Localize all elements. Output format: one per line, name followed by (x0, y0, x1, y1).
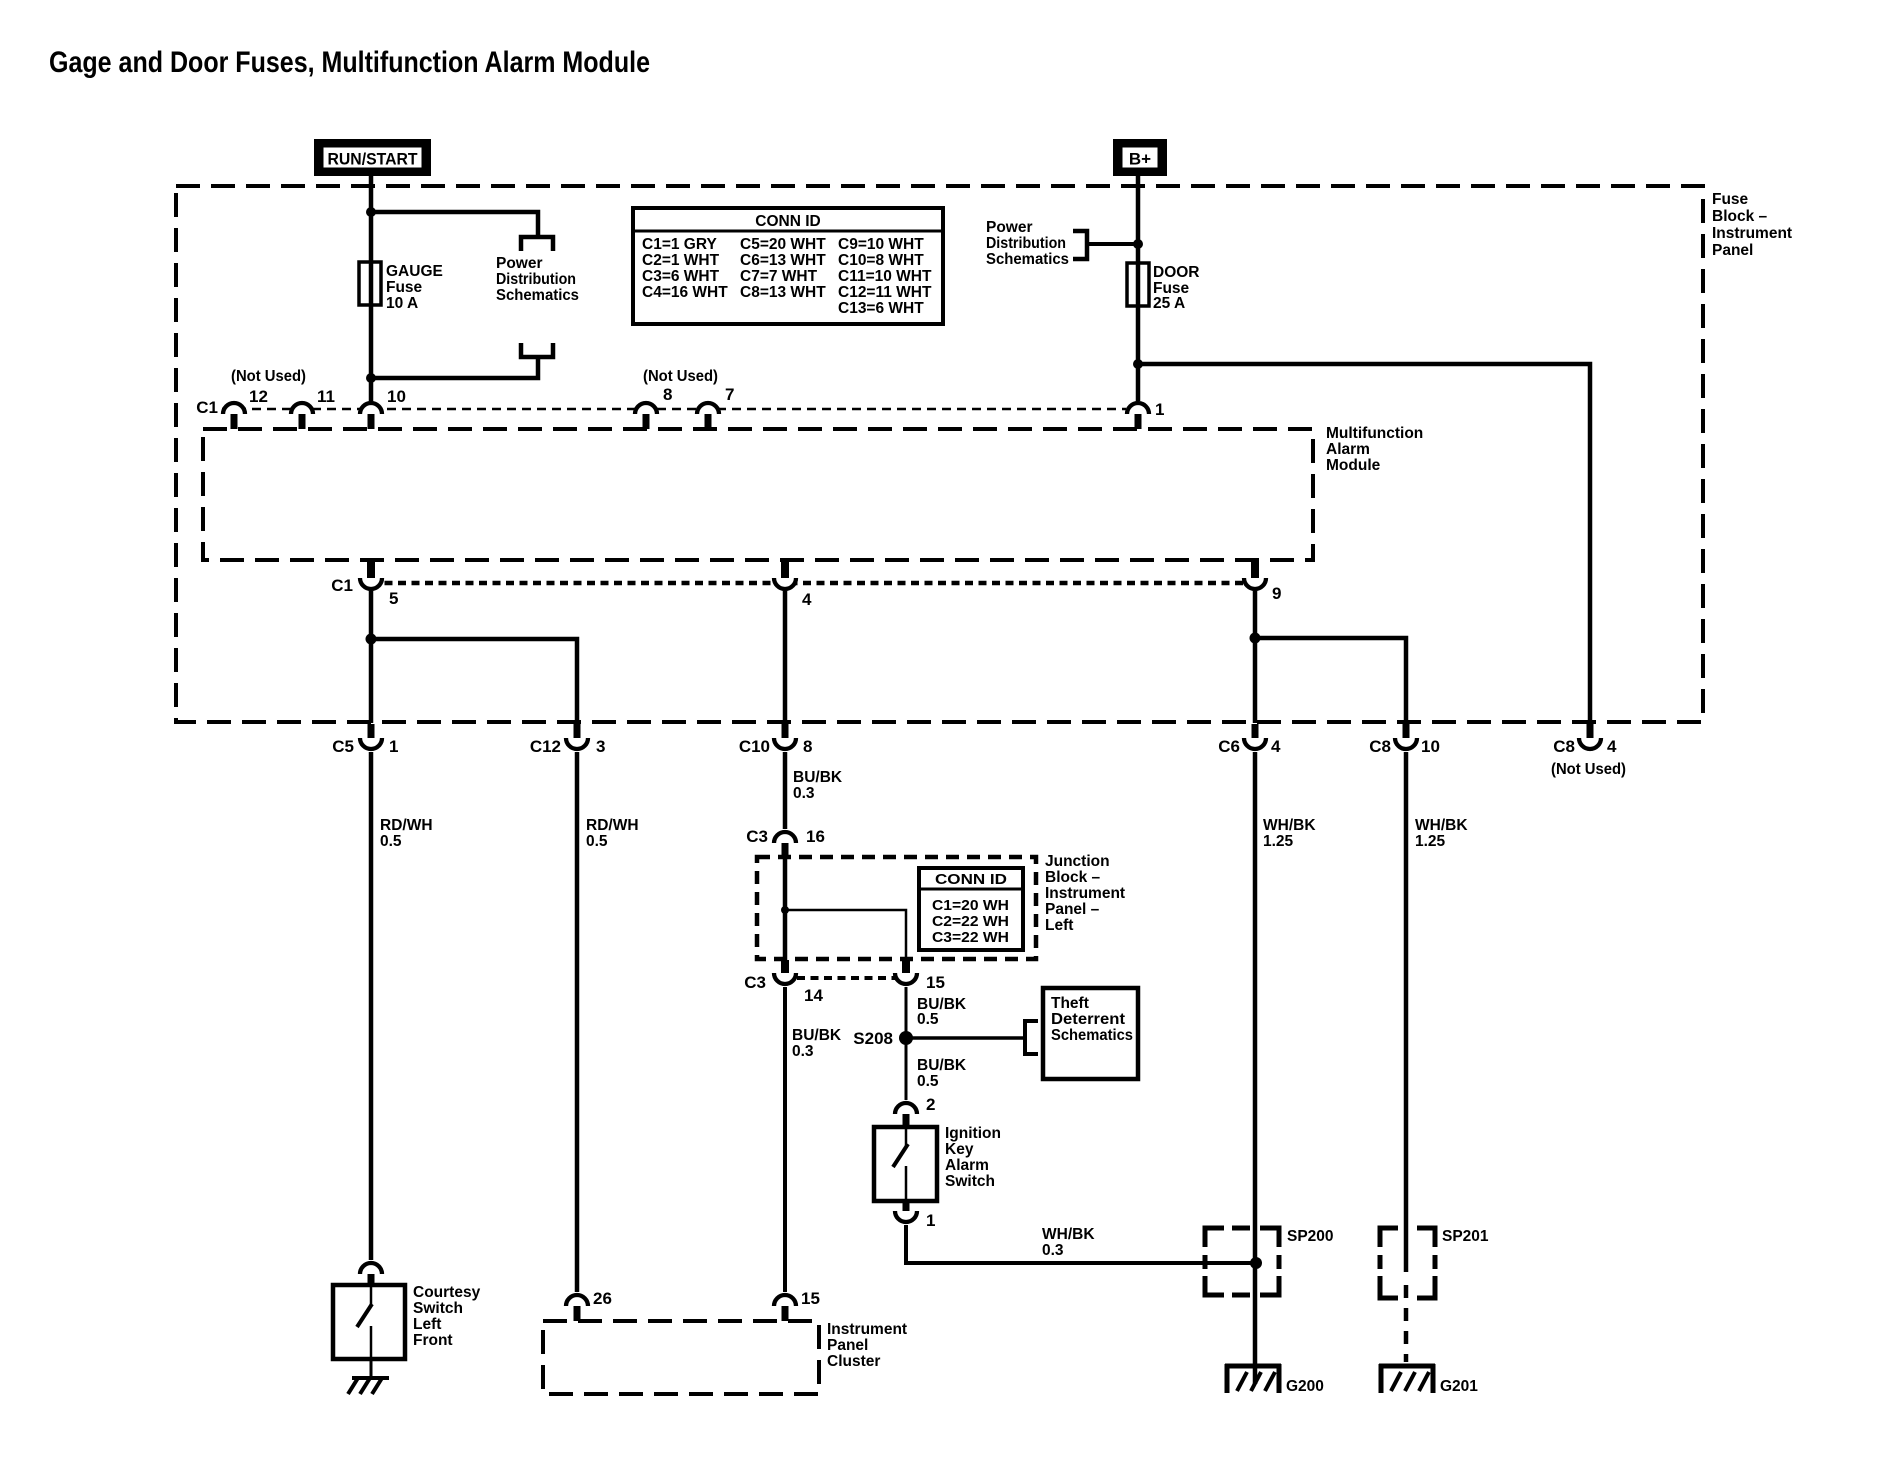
svg-text:Courtesy: Courtesy (413, 1284, 481, 1301)
fuse DOOR 25 A (1127, 263, 1149, 306)
svg-text:Switch: Switch (945, 1173, 995, 1190)
label BU/BK 0.5 (above S208) (917, 996, 967, 1028)
connector C1 pin 5 (module output) (367, 562, 375, 580)
junction door fuse output (1133, 359, 1143, 369)
connector C5 pin 1 (fuse block bottom) (368, 724, 375, 741)
connector C1 pin 1 (1127, 403, 1149, 414)
wire C3 pin14 to cluster pin 15 (783, 987, 787, 1292)
connector pin 4 (module output) (781, 562, 789, 580)
connector C10 pin 8 (782, 724, 789, 741)
svg-text:4: 4 (802, 590, 812, 609)
svg-text:11: 11 (317, 387, 335, 406)
label Ignition Key Alarm Switch (945, 1125, 1001, 1190)
wire branch to C8 pin10 (1255, 638, 1406, 723)
wire C5 pin1 to courtesy switch (369, 752, 374, 1260)
svg-text:BU/BK: BU/BK (917, 1057, 967, 1074)
label WH/BK 1.25 (right) (1415, 817, 1468, 850)
svg-text:C1=20 WH: C1=20 WH (932, 898, 1009, 914)
connector pin 1 (ignition key alarm switch) (903, 1201, 910, 1213)
connector C12 pin 3 (574, 724, 581, 741)
wire C10 pin8 to C3 pin16 (783, 752, 788, 829)
svg-text:B+: B+ (1129, 150, 1151, 169)
conn id table (fuse block) (633, 208, 943, 324)
svg-text:Module: Module (1326, 457, 1381, 474)
svg-text:SP200: SP200 (1287, 1228, 1334, 1245)
ground G201 (1379, 1364, 1435, 1393)
svg-text:Distribution: Distribution (986, 235, 1066, 252)
label WH/BK 1.25 (left) (1263, 817, 1316, 850)
svg-text:Front: Front (413, 1332, 453, 1349)
svg-text:Distribution: Distribution (496, 271, 576, 288)
svg-text:C2=1 WHT: C2=1 WHT (642, 252, 720, 269)
svg-text:1: 1 (1155, 400, 1164, 419)
svg-text:WH/BK: WH/BK (1042, 1226, 1095, 1243)
svg-text:S208: S208 (853, 1029, 893, 1048)
connector cluster pin 26 (566, 1295, 588, 1306)
svg-text:CONN ID: CONN ID (935, 872, 1007, 888)
svg-text:26: 26 (593, 1289, 612, 1308)
wire S208 to theft deterrent bracket (906, 1036, 1024, 1040)
junction block - instrument panel left dashed box (757, 857, 1036, 959)
svg-text:Deterrent: Deterrent (1051, 1011, 1125, 1028)
svg-text:BU/BK: BU/BK (792, 1027, 842, 1044)
svg-text:10 A: 10 A (386, 295, 418, 312)
svg-text:Schematics: Schematics (1051, 1027, 1133, 1044)
wire bracket to B+ feed (1087, 242, 1138, 246)
svg-text:GAUGE: GAUGE (386, 263, 443, 280)
off-page bracket bottom (power distribution) (521, 343, 553, 357)
label Instrument Panel Cluster (827, 1321, 907, 1370)
junction inside junction block (781, 906, 789, 914)
svg-text:C9=10 WHT: C9=10 WHT (838, 236, 924, 253)
svg-text:WH/BK: WH/BK (1415, 817, 1468, 834)
instrument panel cluster dashed box (543, 1321, 819, 1394)
svg-text:RUN/START: RUN/START (328, 150, 419, 169)
junction at SP200 (1250, 1257, 1262, 1269)
ground G200 (1225, 1364, 1281, 1393)
svg-text:G200: G200 (1286, 1378, 1324, 1395)
junction below gauge fuse (366, 373, 376, 383)
wire junction block branch to pin 15 (785, 910, 906, 960)
off-page bracket (power distribution right) (1073, 231, 1087, 259)
svg-text:C10=8 WHT: C10=8 WHT (838, 252, 924, 269)
svg-text:Ignition: Ignition (945, 1125, 1001, 1142)
svg-text:8: 8 (663, 385, 672, 404)
svg-text:C11=10 WHT: C11=10 WHT (838, 268, 932, 285)
junction above door fuse (1133, 239, 1143, 249)
label Multifunction Alarm Module (1326, 425, 1423, 474)
svg-text:Panel: Panel (827, 1337, 868, 1354)
svg-text:C1: C1 (196, 398, 218, 417)
svg-text:C8: C8 (1553, 737, 1575, 756)
svg-text:C6: C6 (1218, 737, 1240, 756)
svg-text:SP201: SP201 (1442, 1228, 1489, 1245)
wire pin5 down to C5 pin1 (369, 591, 374, 723)
svg-text:15: 15 (926, 973, 945, 992)
svg-text:Instrument: Instrument (1712, 225, 1792, 242)
svg-text:C1=1 GRY: C1=1 GRY (642, 236, 717, 253)
connector C8 pin 10 (1403, 724, 1410, 741)
dotted row between C3 14 and 15 (797, 976, 895, 980)
svg-text:Panel –: Panel – (1045, 901, 1100, 918)
svg-text:0.3: 0.3 (793, 785, 815, 802)
label GAUGE Fuse 10 A (386, 263, 443, 312)
junction pin9 branch (1250, 633, 1261, 644)
svg-text:Instrument: Instrument (827, 1321, 907, 1338)
svg-text:Theft: Theft (1051, 995, 1089, 1012)
svg-text:RD/WH: RD/WH (586, 817, 639, 834)
svg-text:Multifunction: Multifunction (1326, 425, 1423, 442)
fuse block - instrument panel dashed box (176, 186, 1703, 722)
svg-text:C5: C5 (332, 737, 354, 756)
wire from bracket back to fuse output (371, 357, 538, 378)
ignition key alarm switch box (874, 1127, 937, 1201)
svg-text:(Not Used): (Not Used) (643, 368, 718, 385)
splice pack SP200 dashed box (1205, 1228, 1279, 1295)
wire C12 pin3 to cluster pin 26 (575, 752, 580, 1292)
svg-text:C1: C1 (331, 576, 353, 595)
connector C3 pin 16 (junction block top) (774, 832, 796, 843)
connector C1 pin 8 (not used) (635, 403, 657, 414)
courtesy switch contacts (357, 1285, 372, 1359)
svg-text:C5=20 WHT: C5=20 WHT (740, 236, 826, 253)
svg-text:1.25: 1.25 (1263, 833, 1294, 850)
wire ignition switch to SP200 (906, 1225, 1256, 1263)
wire pin9 down to C6 pin4 (1253, 591, 1258, 723)
connector pin 15 (junction block) (902, 960, 910, 975)
svg-text:1.25: 1.25 (1415, 833, 1446, 850)
svg-text:Fuse: Fuse (1712, 191, 1749, 208)
svg-text:10: 10 (1421, 737, 1440, 756)
svg-text:C10: C10 (739, 737, 770, 756)
svg-text:(Not Used): (Not Used) (1551, 761, 1626, 778)
svg-text:Key: Key (945, 1141, 974, 1158)
svg-text:Schematics: Schematics (986, 251, 1069, 268)
svg-text:Schematics: Schematics (496, 287, 579, 304)
svg-text:C2=22 WH: C2=22 WH (932, 914, 1009, 930)
junction pin5 branch (366, 634, 377, 645)
label Junction Block - Instrument Panel - Left (1045, 853, 1125, 934)
svg-text:BU/BK: BU/BK (793, 769, 843, 786)
svg-text:C6=13 WHT: C6=13 WHT (740, 252, 826, 269)
svg-text:Power: Power (986, 219, 1033, 236)
terminal B+ (1113, 139, 1167, 176)
svg-text:Fuse: Fuse (386, 279, 423, 296)
svg-text:Left: Left (413, 1316, 441, 1333)
svg-text:5: 5 (389, 589, 398, 608)
label RD/WH 0.5 (left) (380, 817, 433, 850)
svg-text:C3: C3 (746, 827, 768, 846)
svg-text:Left: Left (1045, 917, 1073, 934)
connector C1 pin 7 (not used) (697, 403, 719, 414)
wire inside junction block (C3 16 to C3 14) (783, 858, 788, 960)
splice pack SP201 dashed box (1380, 1228, 1435, 1298)
svg-text:DOOR: DOOR (1153, 264, 1200, 281)
svg-text:Junction: Junction (1045, 853, 1110, 870)
svg-text:WH/BK: WH/BK (1263, 817, 1316, 834)
multifunction alarm module dashed box (203, 429, 1313, 560)
svg-text:3: 3 (596, 737, 605, 756)
svg-text:0.5: 0.5 (917, 1073, 939, 1090)
svg-text:Gage and Door Fuses, Multifunc: Gage and Door Fuses, Multifunction Alarm… (49, 46, 650, 79)
splice S208 (899, 1031, 913, 1045)
connector C1 pin 11 (not used) (291, 403, 313, 414)
label WH/BK 0.3 (1042, 1226, 1095, 1259)
connector C1 pin 12 (not used) (223, 403, 245, 414)
label Theft Deterrent Schematics (1051, 995, 1133, 1044)
svg-text:C8=13 WHT: C8=13 WHT (740, 284, 826, 301)
theft deterrent schematics box (1043, 988, 1138, 1079)
svg-text:25 A: 25 A (1153, 295, 1185, 312)
junction above gauge fuse (366, 207, 376, 217)
svg-text:4: 4 (1271, 737, 1281, 756)
label BU/BK 0.5 (below S208) (917, 1057, 967, 1090)
svg-text:C7=7 WHT: C7=7 WHT (740, 268, 818, 285)
wire branch to C12 pin3 (371, 639, 577, 723)
svg-text:Power: Power (496, 255, 543, 272)
svg-text:16: 16 (806, 827, 825, 846)
label BU/BK 0.3 (upper) (793, 769, 843, 802)
svg-text:14: 14 (804, 986, 823, 1005)
svg-text:2: 2 (926, 1095, 935, 1114)
wire pin4 down to C10 pin8 (783, 591, 788, 723)
connector pin 9 (module output) (1251, 562, 1259, 580)
svg-text:7: 7 (725, 385, 734, 404)
connector courtesy switch (top) (360, 1263, 382, 1274)
svg-text:0.5: 0.5 (586, 833, 608, 850)
label BU/BK 0.3 (lower) (792, 1027, 842, 1060)
connector C6 pin 4 (1252, 724, 1259, 741)
svg-text:C12=11 WHT: C12=11 WHT (838, 284, 932, 301)
svg-text:Panel: Panel (1712, 242, 1753, 259)
svg-text:4: 4 (1607, 737, 1617, 756)
connector C3 pin 14 (781, 960, 789, 975)
svg-text:1: 1 (926, 1211, 935, 1230)
svg-text:1: 1 (389, 737, 398, 756)
svg-text:8: 8 (803, 737, 812, 756)
connector C1 pin 10 (360, 403, 382, 414)
svg-text:C3=6 WHT: C3=6 WHT (642, 268, 720, 285)
svg-text:C13=6 WHT: C13=6 WHT (838, 300, 924, 317)
courtesy switch left front box (333, 1285, 405, 1359)
wire B+ to connector 1 through DOOR fuse (1136, 176, 1141, 401)
svg-text:9: 9 (1272, 584, 1281, 603)
connector cluster pin 15 (774, 1295, 796, 1306)
wire RUN/START to connector 10 through GAUGE fuse (369, 176, 374, 401)
svg-text:10: 10 (387, 387, 406, 406)
svg-text:Instrument: Instrument (1045, 885, 1125, 902)
label RD/WH 0.5 (second) (586, 817, 639, 850)
connector row C1 dashed line (fuse block to alarm module) (222, 408, 1126, 411)
svg-text:12: 12 (249, 387, 268, 406)
label DOOR Fuse 25 A (1153, 264, 1200, 312)
svg-text:C3: C3 (744, 973, 766, 992)
svg-text:C4=16 WHT: C4=16 WHT (642, 284, 728, 301)
svg-text:0.3: 0.3 (792, 1043, 814, 1060)
module output connector dotted row (371, 581, 1255, 586)
off-page bracket top (power distribution) (521, 237, 553, 251)
conn id table (junction block) (919, 868, 1023, 950)
label Fuse Block - Instrument Panel (1712, 191, 1792, 259)
wire door fuse output to C8 pin 4 (not used) (1138, 364, 1590, 722)
wire C6 pin4 to G200 through SP200 (1253, 752, 1258, 1384)
svg-text:C8: C8 (1369, 737, 1391, 756)
svg-text:0.5: 0.5 (917, 1011, 939, 1028)
svg-text:C12: C12 (530, 737, 561, 756)
svg-text:G201: G201 (1440, 1378, 1478, 1395)
svg-text:C3=22 WH: C3=22 WH (932, 930, 1009, 946)
svg-text:Block –: Block – (1712, 208, 1768, 225)
fuse GAUGE 10 A (359, 262, 381, 305)
svg-text:(Not Used): (Not Used) (231, 368, 306, 385)
ground (courtesy switch) (348, 1378, 389, 1394)
svg-text:15: 15 (801, 1289, 820, 1308)
wire C8 pin10 to SP201 (1404, 752, 1409, 1272)
wire branch to power distribution reference (top) (371, 212, 538, 236)
ignition switch contacts (893, 1127, 908, 1201)
svg-text:Alarm: Alarm (1326, 441, 1370, 458)
terminal RUN/START (314, 139, 431, 176)
svg-text:Block –: Block – (1045, 869, 1101, 886)
wire SP201 to G201 dashed (not used) (1404, 1285, 1409, 1362)
connector pin 2 (ignition key alarm switch) (895, 1103, 917, 1114)
svg-text:0.3: 0.3 (1042, 1242, 1064, 1259)
label Power Distribution Schematics (right) (986, 219, 1069, 268)
label Power Distribution Schematics (left) (496, 255, 579, 304)
svg-text:RD/WH: RD/WH (380, 817, 433, 834)
svg-text:CONN ID: CONN ID (755, 213, 820, 230)
off-page bracket theft deterrent (1025, 1021, 1038, 1054)
svg-text:Alarm: Alarm (945, 1157, 989, 1174)
wire courtesy switch to ground (370, 1359, 373, 1380)
label Courtesy Switch Left Front (413, 1284, 481, 1349)
svg-text:Switch: Switch (413, 1300, 463, 1317)
wire pin15 to ignition key alarm switch (905, 987, 908, 1100)
svg-text:Cluster: Cluster (827, 1353, 880, 1370)
svg-text:0.5: 0.5 (380, 833, 402, 850)
connector C8 pin 4 (not used) (1587, 724, 1594, 741)
